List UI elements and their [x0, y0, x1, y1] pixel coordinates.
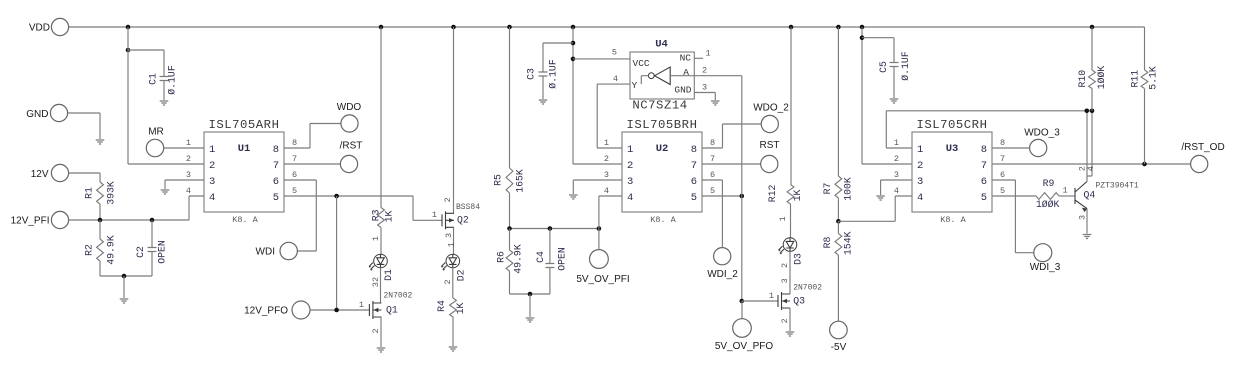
wire A net vertical	[741, 76, 743, 301]
wire VDD to R10	[1091, 27, 1093, 70]
node junction pin4 branch	[597, 226, 602, 231]
wire VDD to R7	[837, 27, 839, 176]
ground C5 ground	[890, 99, 899, 103]
label D1	[383, 269, 394, 281]
wire U1 pin3 to ground	[165, 180, 204, 189]
svg-text:5: 5	[292, 186, 297, 196]
capacitor C1	[148, 50, 178, 100]
wire U4 A pin2 to net	[694, 66, 742, 76]
svg-text:1: 1	[446, 242, 456, 247]
ground C1 ground	[160, 101, 169, 105]
svg-text:6: 6	[710, 170, 715, 180]
resistor R7	[822, 176, 854, 201]
svg-text:2: 2	[780, 318, 790, 323]
node junction R11 bottom	[1142, 162, 1147, 167]
svg-text:Ø.1UF: Ø.1UF	[167, 65, 178, 95]
ground Q4 ground	[1083, 235, 1092, 239]
diode D1 LED	[369, 254, 387, 271]
resistor R10	[1077, 66, 1107, 90]
svg-text:8: 8	[981, 144, 987, 156]
wire Q2 drain to D2	[453, 227, 455, 254]
svg-text:2: 2	[627, 160, 633, 172]
svg-text:6: 6	[1000, 170, 1005, 180]
svg-text:WDI_2: WDI_2	[707, 269, 738, 280]
svg-text:GND: GND	[26, 109, 48, 120]
svg-text:3: 3	[780, 278, 790, 283]
resistor R5	[493, 168, 526, 193]
ground R2/C2 ground	[120, 299, 129, 303]
node MR port	[146, 127, 163, 157]
svg-text:1ØØK: 1ØØK	[1036, 199, 1060, 210]
wire D2 to R4	[452, 268, 454, 298]
svg-text:D1: D1	[383, 269, 394, 281]
svg-text:5: 5	[691, 192, 697, 204]
label D3	[793, 253, 804, 265]
ground U4 ground	[711, 101, 720, 105]
op-amp U4 NC7SZ14 inverter	[630, 39, 694, 113]
transistor Q3 2N7002	[769, 284, 822, 311]
svg-text:6: 6	[292, 170, 297, 180]
svg-text:K8. A: K8. A	[232, 215, 258, 225]
wire pin5 branch down to 12V_PFO node	[336, 196, 338, 310]
svg-text:3: 3	[444, 233, 454, 238]
wire Q4 emitter to ground	[1086, 209, 1088, 234]
svg-text:K8. A: K8. A	[940, 215, 966, 225]
node junction R5/R6	[507, 226, 512, 231]
node 12V_PFO port	[244, 301, 310, 319]
wire ground stem middle	[529, 294, 531, 317]
node junction C3 branch	[571, 41, 576, 46]
svg-text:8: 8	[292, 138, 297, 148]
pin labels D1 pin2 / Q1 pin3	[371, 277, 381, 287]
svg-text:C5: C5	[878, 61, 889, 73]
node junction U4 VCC branch	[571, 57, 576, 62]
ground C3 ground	[539, 100, 548, 104]
wire U4 Y pin4 to U2 pin1	[597, 74, 630, 148]
svg-text:1: 1	[778, 216, 788, 221]
svg-text:7: 7	[292, 154, 297, 164]
svg-text:C3: C3	[526, 68, 537, 80]
wire R1 bottom to 12V_PFI node	[99, 204, 101, 220]
capacitor C4	[535, 229, 568, 295]
svg-text:2: 2	[443, 279, 453, 284]
pin label D3 pin1	[778, 216, 788, 221]
svg-text:2: 2	[443, 197, 453, 202]
svg-text:3: 3	[186, 170, 191, 180]
svg-text:/RST: /RST	[340, 140, 363, 151]
node junction R2/C2 ground	[122, 274, 127, 279]
svg-text:R11: R11	[1130, 70, 1141, 88]
svg-text:R1: R1	[84, 187, 95, 199]
node GND port	[26, 104, 67, 121]
node -5V port	[830, 321, 848, 353]
svg-text:1K: 1K	[455, 303, 466, 315]
transistor Q2 BSS84	[432, 197, 480, 238]
label D2	[456, 269, 467, 281]
transistor Q4 PZT3904T1	[1075, 182, 1139, 213]
svg-text:1: 1	[604, 138, 609, 148]
wire U3 pin3 to ground	[881, 180, 912, 195]
ground U2 pin3 ground	[569, 195, 578, 199]
svg-text:1: 1	[894, 138, 899, 148]
op-amp U3 ISL705CRH supervisor IC	[894, 118, 1005, 225]
svg-text:R10: R10	[1077, 70, 1088, 88]
svg-text:ISL705ARH: ISL705ARH	[209, 118, 280, 132]
svg-text:6: 6	[273, 176, 279, 188]
ground GND port ground	[96, 140, 105, 144]
wire D1 to Q1 drain	[380, 268, 382, 303]
svg-text:1: 1	[432, 210, 437, 220]
svg-text:2N7002: 2N7002	[384, 292, 413, 301]
node junction R6/C4 ground	[528, 292, 533, 297]
pin label Q1 pin2	[371, 328, 381, 333]
pin label D1 pin1	[371, 236, 381, 241]
node junction Q3 gate/5V_OV_PFO	[740, 299, 745, 304]
node junction pin5/A net	[740, 194, 745, 199]
wire U3 pin7 to /RST_OD	[992, 163, 1191, 165]
node 5V_OV_PFO port	[715, 319, 774, 352]
svg-text:Q2: Q2	[457, 215, 469, 226]
svg-text:1: 1	[359, 300, 364, 310]
wire R3 to D1	[380, 228, 382, 255]
svg-text:5.1K: 5.1K	[1148, 66, 1159, 90]
svg-text:VCC: VCC	[633, 58, 650, 69]
resistor R2	[84, 220, 117, 276]
node VDD port	[29, 18, 69, 35]
svg-text:3: 3	[209, 176, 215, 188]
node junction 12V_PFO/pin5	[334, 308, 339, 313]
pin labels Q4 pins 2 and 4	[1078, 166, 1097, 171]
node WDO_3 port	[1024, 128, 1060, 157]
svg-text:4: 4	[209, 192, 215, 204]
svg-text:3: 3	[702, 83, 707, 93]
transistor Q1 2N7002	[359, 292, 413, 319]
node 5V_OV_PFI port	[576, 250, 629, 285]
svg-text:R9: R9	[1043, 178, 1055, 189]
svg-text:6: 6	[691, 176, 697, 188]
svg-text:3: 3	[917, 176, 923, 188]
resistor R3	[371, 208, 395, 228]
pin label D3 pin2	[780, 263, 790, 268]
svg-text:Ø.1UF: Ø.1UF	[548, 59, 559, 89]
diode D2 LED	[441, 254, 459, 271]
svg-text:2: 2	[209, 160, 215, 172]
wire VDD top rail	[69, 26, 1145, 28]
node /RST_OD port	[1181, 142, 1224, 173]
node junction collector/R10	[1090, 109, 1095, 114]
svg-text:5: 5	[1000, 186, 1005, 196]
wire C3 branch	[543, 43, 573, 72]
svg-text:5: 5	[612, 48, 617, 58]
pin label D2 pin1	[446, 242, 456, 247]
pin label Q3 pin2	[780, 318, 790, 323]
svg-text:1ØØK: 1ØØK	[1096, 66, 1107, 90]
svg-text:2: 2	[604, 154, 609, 164]
wire Q3 source to ground	[789, 308, 791, 331]
svg-text:4: 4	[627, 192, 633, 204]
wire R8 to -5V	[837, 255, 839, 321]
wire GND port to ground	[68, 113, 100, 139]
svg-text:Q1: Q1	[386, 305, 398, 316]
svg-text:4: 4	[613, 74, 618, 84]
svg-text:PZT3904T1: PZT3904T1	[1096, 182, 1139, 191]
capacitor C3	[526, 59, 559, 99]
ground Q1 ground	[377, 348, 386, 352]
svg-text:R4: R4	[436, 300, 447, 312]
node junction C5 branch	[860, 35, 865, 40]
wire ground stem	[123, 276, 125, 298]
node 12V_PFI port	[11, 211, 69, 228]
node junction C4	[548, 226, 553, 231]
svg-text:K8. A: K8. A	[650, 215, 676, 225]
node junction 12V_PFI/C2	[150, 218, 155, 223]
svg-text:7: 7	[691, 160, 697, 172]
svg-text:2: 2	[917, 160, 923, 172]
node junction C1 branch	[126, 48, 131, 53]
node junction R7/R8/U3 pin4	[836, 219, 841, 224]
svg-text:4: 4	[186, 186, 191, 196]
svg-text:-5V: -5V	[831, 342, 847, 353]
svg-text:OPEN: OPEN	[157, 240, 168, 264]
resistor R1	[84, 181, 117, 205]
wire 12V_PFO to Q1 gate	[310, 309, 369, 311]
resistor R9	[1036, 178, 1060, 210]
svg-text:1: 1	[769, 291, 774, 301]
svg-text:C2: C2	[135, 246, 146, 258]
svg-text:1K: 1K	[792, 190, 803, 202]
svg-text:2N7002: 2N7002	[793, 284, 822, 293]
wire Q1 source to ground	[380, 317, 382, 347]
svg-text:8: 8	[710, 138, 715, 148]
wire U2 pin7 to RST	[702, 163, 761, 165]
svg-text:U4: U4	[655, 39, 668, 51]
svg-text:U2: U2	[656, 143, 669, 155]
svg-text:ISL705BRH: ISL705BRH	[627, 118, 698, 132]
node junction collector/pin1	[1085, 109, 1090, 114]
wire R4 to ground	[452, 317, 454, 346]
svg-text:R7: R7	[822, 183, 833, 195]
capacitor C2	[135, 220, 168, 276]
wire VDD to R12	[790, 27, 792, 185]
svg-text:4: 4	[894, 186, 899, 196]
svg-text:C4: C4	[535, 251, 546, 263]
node RST port	[760, 140, 780, 173]
svg-text:WDO_3: WDO_3	[1024, 128, 1060, 139]
wire 12V to R1	[69, 173, 100, 182]
svg-text:R8: R8	[822, 237, 833, 249]
svg-text:R12: R12	[767, 184, 778, 202]
svg-text:2: 2	[371, 328, 381, 333]
pin NC stub U4 pin1	[694, 49, 710, 59]
svg-text:U1: U1	[238, 143, 251, 155]
svg-text:1K: 1K	[384, 211, 395, 223]
wire to 5V_OV_PFO	[741, 301, 743, 319]
svg-text:49.9K: 49.9K	[106, 235, 117, 265]
svg-text:7: 7	[981, 160, 987, 172]
svg-text:/RST_OD: /RST_OD	[1181, 142, 1224, 153]
svg-text:5: 5	[273, 192, 279, 204]
wire R2/C2 bottom join	[100, 275, 152, 277]
wire to Q3 gate	[742, 300, 778, 302]
svg-text:WDI: WDI	[256, 247, 275, 258]
svg-text:393K: 393K	[106, 181, 117, 205]
svg-text:8: 8	[1000, 138, 1005, 148]
svg-text:C1: C1	[148, 73, 159, 85]
svg-text:4: 4	[604, 186, 609, 196]
svg-text:32: 32	[371, 277, 381, 287]
wire VDD drop to U3 pin2	[862, 27, 912, 164]
svg-text:100K: 100K	[843, 177, 854, 201]
svg-text:8: 8	[273, 144, 279, 156]
wire VDD drop to C1	[128, 27, 164, 164]
svg-text:Q3: Q3	[793, 295, 805, 306]
op-amp U1 ISL705ARH supervisor IC	[186, 118, 297, 225]
wire C5 branch	[862, 38, 894, 63]
resistor R8	[822, 221, 854, 255]
wire R5 to node	[509, 193, 511, 229]
node junction pin5/Q1 branch	[334, 194, 339, 199]
diode D3 LED	[779, 238, 797, 255]
node WDO_2 port	[753, 103, 789, 133]
svg-text:NC: NC	[680, 53, 692, 64]
node WDI_3 port	[1030, 244, 1061, 273]
ground U1 pin3 ground	[161, 190, 170, 194]
wire U2 pin6 to WDI_2	[702, 180, 722, 248]
wire R7 to node	[837, 198, 839, 221]
wire VDD drop to U2 pin2	[573, 27, 622, 164]
svg-text:U3: U3	[946, 143, 959, 155]
pin label Q3 pin3	[780, 278, 790, 283]
wire VDD to Q2 source	[453, 27, 455, 213]
svg-text:R2: R2	[84, 244, 95, 256]
wire U4 VCC pin5	[573, 48, 630, 59]
svg-text:3: 3	[894, 170, 899, 180]
svg-text:165K: 165K	[515, 169, 526, 193]
svg-text:WDO_2: WDO_2	[753, 103, 789, 114]
svg-text:2: 2	[702, 66, 707, 76]
svg-text:12V_PFI: 12V_PFI	[11, 216, 50, 227]
svg-text:3: 3	[1078, 215, 1088, 220]
wire R10 to collector node	[1091, 89, 1093, 111]
node VDD junction dots on rail	[126, 25, 1095, 30]
wire U1 pin5 to Q2 gate	[284, 196, 442, 220]
wire U2 pin5 to A net	[702, 195, 742, 197]
resistor R6	[496, 229, 524, 295]
pin label D2 pin2	[443, 279, 453, 284]
svg-text:2: 2	[780, 263, 790, 268]
wire R6/C4 bottom join	[510, 293, 550, 295]
svg-text:49.9K: 49.9K	[513, 244, 524, 274]
wire U3 pin8 to WDO_3	[992, 147, 1030, 149]
wire U2 pin8 to WDO_2	[702, 124, 761, 148]
svg-text:MR: MR	[148, 127, 164, 138]
wire 5V_OV_PFI node line	[510, 228, 599, 230]
svg-text:5: 5	[710, 186, 715, 196]
wire U3 pin1 to collector node	[886, 111, 1092, 148]
node WDI_2 port	[707, 248, 738, 280]
wire VDD to R5	[509, 27, 511, 168]
wire Q4 collector pins	[1087, 111, 1092, 182]
capacitor C5	[878, 51, 911, 98]
svg-text:WDO: WDO	[337, 102, 362, 113]
svg-text:OPEN: OPEN	[557, 247, 568, 271]
wire R9 to Q4 base	[1059, 186, 1075, 197]
svg-text:GND: GND	[674, 85, 691, 96]
ground R4 ground	[449, 347, 458, 351]
svg-text:R5: R5	[493, 174, 504, 186]
resistor R4	[436, 298, 466, 317]
wire MR to U1 pin1	[164, 147, 204, 149]
svg-text:1: 1	[627, 144, 633, 156]
svg-text:1: 1	[706, 49, 711, 59]
node WDO port	[337, 102, 362, 132]
svg-text:12V: 12V	[31, 169, 49, 180]
pin label Q4 pin3	[1078, 215, 1088, 220]
svg-text:RST: RST	[760, 140, 780, 151]
node /RST port	[340, 140, 363, 172]
svg-text:R6: R6	[496, 251, 507, 263]
wire R12 to D3	[790, 204, 792, 238]
svg-text:5V_OV_PFI: 5V_OV_PFI	[576, 274, 629, 285]
svg-text:3: 3	[627, 176, 633, 188]
op-amp U2 ISL705BRH supervisor IC	[604, 118, 715, 225]
svg-text:8: 8	[691, 144, 697, 156]
svg-text:154K: 154K	[843, 231, 854, 255]
wire U1 pin6 to WDI	[284, 180, 316, 251]
svg-text:ISL705CRH: ISL705CRH	[917, 118, 988, 132]
svg-text:1: 1	[1062, 186, 1067, 196]
ground Q3 ground	[786, 332, 795, 336]
svg-text:D2: D2	[456, 269, 467, 281]
svg-text:R3: R3	[371, 209, 382, 221]
svg-text:NC7SZ14: NC7SZ14	[632, 99, 687, 113]
wire 5V_OV_PFI to node	[598, 229, 600, 250]
ground U3 pin3 ground	[876, 196, 885, 200]
svg-text:WDI_3: WDI_3	[1030, 262, 1061, 273]
svg-text:1: 1	[917, 144, 923, 156]
svg-text:5V_OV_PFO: 5V_OV_PFO	[715, 341, 774, 352]
wire VDD to U1 pin2	[128, 163, 204, 165]
svg-text:A: A	[683, 67, 689, 78]
wire U1 pin8 to WDO	[284, 124, 341, 149]
svg-text:1: 1	[371, 236, 381, 241]
resistor R12	[767, 184, 803, 204]
inverter triangle U4	[641, 67, 694, 85]
svg-text:VDD: VDD	[29, 23, 50, 34]
svg-text:5: 5	[981, 192, 987, 204]
wire node to U2 pin4	[599, 196, 622, 229]
node WDI port	[256, 242, 298, 259]
svg-text:2: 2	[894, 154, 899, 164]
wire D3 to Q3 drain	[789, 251, 791, 294]
svg-text:4: 4	[1086, 166, 1096, 171]
svg-text:12V_PFO: 12V_PFO	[244, 306, 288, 317]
wire U1 pin7 to /RST	[284, 163, 340, 165]
svg-text:4: 4	[917, 192, 923, 204]
svg-text:3: 3	[604, 170, 609, 180]
wire U3 pin6 to WDI_3	[992, 180, 1034, 253]
node junction 12V_PFI/R1/R2	[98, 218, 103, 223]
svg-text:7: 7	[273, 160, 279, 172]
wire node to U3 pin4	[838, 196, 912, 221]
svg-text:7: 7	[1000, 154, 1005, 164]
svg-text:7: 7	[710, 154, 715, 164]
wire 12V_PFI node to U1 pin4	[69, 196, 204, 220]
svg-text:BSS84: BSS84	[456, 203, 480, 212]
wire U2 pin3 to ground	[573, 180, 622, 194]
svg-text:2: 2	[186, 154, 191, 164]
wire U4 GND pin3	[694, 83, 715, 101]
